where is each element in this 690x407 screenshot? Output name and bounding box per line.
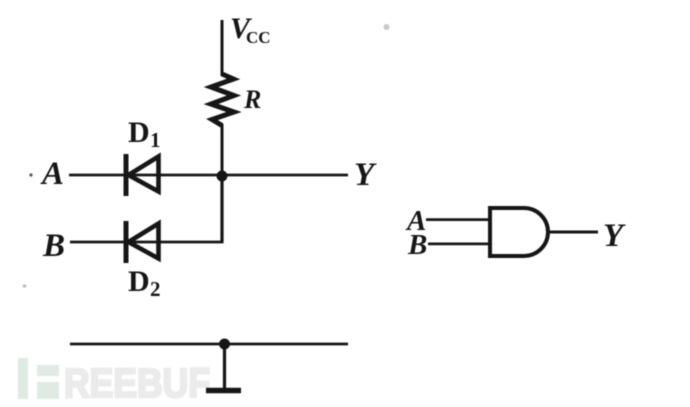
wire Vcc vertical drop [221, 20, 224, 76]
svg-text:2: 2 [150, 277, 161, 301]
wire input A [69, 174, 125, 177]
svg-text:B: B [42, 228, 65, 264]
resistor R [211, 74, 234, 126]
gate output wire [549, 231, 598, 234]
svg-text:Y: Y [603, 218, 626, 254]
wire input B [70, 241, 125, 244]
node junction dot (output node) [217, 171, 228, 182]
wire D1 output to Y [125, 174, 348, 177]
node junction dot (ground rail) [219, 339, 230, 350]
svg-text:Y: Y [354, 157, 377, 193]
svg-text:REEBUF: REEBUF [64, 360, 210, 406]
svg-text:D: D [128, 116, 150, 149]
gate input wire A [426, 218, 490, 221]
ground stem [223, 344, 226, 388]
svg-text:A: A [40, 156, 64, 192]
stray scan dot bottom left [23, 284, 27, 288]
AND gate body U1 [490, 208, 548, 256]
watermark logo bar [18, 358, 28, 399]
ground bar [206, 388, 241, 394]
svg-text:R: R [243, 85, 261, 114]
bottom ground rail [70, 343, 348, 346]
stray scan dot top right [384, 24, 390, 30]
wire D2 output [125, 241, 222, 244]
svg-text:B: B [407, 229, 427, 261]
wire node down to D2 corner [220, 176, 223, 243]
svg-text:CC: CC [246, 28, 271, 47]
watermark logo F bottom block [37, 382, 59, 399]
watermark logo F top block [37, 365, 59, 376]
stray scan tick left of A wire [29, 173, 32, 176]
svg-text:1: 1 [150, 128, 161, 152]
AND gate symbol [405, 205, 626, 261]
diode D2 [126, 221, 159, 263]
svg-text:D: D [128, 265, 150, 298]
wire resistor to node [221, 124, 224, 176]
gate input wire B [428, 243, 490, 246]
diode D1 [126, 154, 159, 196]
